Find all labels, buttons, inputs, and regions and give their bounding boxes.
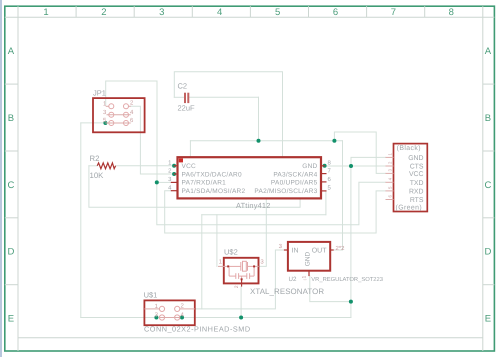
svg-text:GND: GND [305, 251, 312, 266]
svg-text:(Black): (Black) [397, 145, 421, 152]
svg-text:U$1: U$1 [144, 291, 158, 300]
svg-text:RXD: RXD [409, 189, 424, 196]
svg-text:PA0/UPDI/AR5: PA0/UPDI/AR5 [271, 180, 318, 187]
svg-text:GND: GND [302, 163, 317, 170]
svg-text:R2: R2 [90, 154, 100, 163]
svg-text:2*2: 2*2 [336, 245, 346, 252]
svg-text:U$2: U$2 [224, 248, 238, 257]
svg-text:2: 2 [234, 285, 240, 288]
svg-text:1: 1 [43, 7, 48, 18]
svg-text:C2: C2 [178, 82, 188, 91]
svg-text:C: C [484, 180, 491, 191]
svg-text:XTAL_RESONATOR: XTAL_RESONATOR [250, 287, 324, 296]
svg-text:4: 4 [217, 7, 222, 18]
svg-text:VR_REGULATOR_SOT223: VR_REGULATOR_SOT223 [311, 276, 383, 283]
svg-text:IN: IN [292, 248, 299, 255]
svg-text:PA6/TXD/DAC/AR0: PA6/TXD/DAC/AR0 [182, 171, 242, 178]
svg-text:(Green): (Green) [396, 204, 423, 211]
svg-text:C: C [7, 180, 14, 191]
svg-text:D: D [7, 247, 14, 258]
svg-text:E: E [485, 314, 491, 325]
svg-text:JP1: JP1 [93, 89, 106, 98]
svg-text:ATtiny412: ATtiny412 [236, 201, 271, 210]
svg-text:VCC: VCC [409, 171, 424, 178]
svg-text:3: 3 [159, 7, 164, 18]
svg-text:5: 5 [275, 7, 280, 18]
svg-text:CONN_02X2-PINHEAD-SMD: CONN_02X2-PINHEAD-SMD [144, 325, 251, 334]
svg-text:B: B [8, 113, 14, 124]
svg-text:E: E [8, 314, 14, 325]
svg-text:VCC: VCC [182, 163, 197, 170]
svg-text:D: D [484, 247, 491, 258]
svg-text:CTS: CTS [410, 164, 424, 171]
svg-text:A: A [8, 46, 15, 57]
svg-text:RTS: RTS [410, 197, 424, 204]
svg-text:B: B [485, 113, 491, 124]
svg-text:PA7/RXD/AR1: PA7/RXD/AR1 [182, 180, 227, 187]
svg-text:6: 6 [333, 7, 338, 18]
svg-text:7: 7 [391, 7, 396, 18]
svg-text:22uF: 22uF [178, 104, 196, 113]
svg-text:TXD: TXD [410, 180, 424, 187]
svg-text:↔: ↔ [303, 277, 308, 283]
svg-text:PA2/MISO/SCL/AR3: PA2/MISO/SCL/AR3 [254, 188, 317, 195]
svg-text:PA3/SCK/AR4: PA3/SCK/AR4 [273, 171, 317, 178]
svg-text:GND: GND [408, 155, 423, 162]
svg-text:A: A [485, 46, 492, 57]
svg-text:U2: U2 [289, 276, 297, 283]
svg-text:2: 2 [101, 7, 106, 18]
svg-text:PA1/SDA/MOSI/AR2: PA1/SDA/MOSI/AR2 [182, 188, 246, 195]
svg-text:10K: 10K [90, 171, 105, 180]
svg-text:8: 8 [449, 7, 454, 18]
svg-text:OUT: OUT [312, 248, 328, 255]
